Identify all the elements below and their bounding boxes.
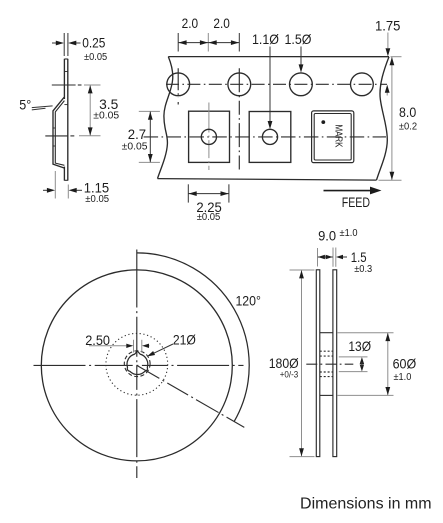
dimension 1.15 +/-0.05 pocket depth: [43, 171, 110, 205]
svg-text:±1.0: ±1.0: [394, 372, 412, 383]
svg-text:13Ø: 13Ø: [348, 339, 371, 354]
pocket row centerline: [144, 136, 386, 138]
tape lead-out arc 120 degrees: [137, 253, 249, 422]
svg-text:2.0: 2.0: [182, 16, 199, 31]
reel front outline circle: [41, 270, 232, 461]
svg-text:2.50: 2.50: [85, 333, 110, 348]
dimension 1.5 +/-0.3 flange thickness: [336, 250, 373, 275]
dimension 1.75 edge to sprocket center: [375, 18, 401, 95]
svg-text:±0.05: ±0.05: [85, 194, 109, 205]
svg-text:±0.05: ±0.05: [93, 110, 119, 121]
dimension 9.0 +/-1.0 overall width: [318, 228, 359, 267]
svg-text:±0.05: ±0.05: [197, 212, 221, 223]
sprocket hole 3: [290, 73, 313, 96]
dimension 5 degree draft angle with leader: [19, 97, 52, 112]
dimension 21 dia with leader: [147, 333, 196, 357]
svg-text:1.75: 1.75: [375, 18, 401, 33]
sprocket hole 1: [167, 68, 190, 104]
pocket 2: [249, 112, 291, 163]
dimension 2.50 keyway width: [85, 333, 149, 352]
reel left flange: [316, 270, 320, 457]
pocket-center tick line on profile: [45, 135, 74, 137]
dimension 0.25 +/-0.05 tape thickness: [52, 33, 108, 63]
sprocket row centerline: [166, 83, 387, 85]
dimension 2.0 2.0 sprocket spacing: [178, 16, 239, 51]
svg-text:2.0: 2.0: [213, 16, 230, 31]
dimension 1.5 dia sprocket hole with leader: [285, 32, 312, 73]
svg-text:±0.05: ±0.05: [84, 52, 108, 63]
svg-text:1.1Ø: 1.1Ø: [252, 32, 279, 47]
sprocket hole 4: [351, 73, 374, 96]
svg-text:21Ø: 21Ø: [173, 333, 196, 348]
svg-text:1.5: 1.5: [351, 250, 367, 265]
dimension 13 dia bore: [339, 339, 371, 372]
hub bore dashed circle 13 dia: [124, 351, 150, 377]
dimension 180 dia +0/-3 reel diameter: [269, 270, 315, 457]
pocket 2 hole: [262, 129, 277, 144]
carrier tape cross-section profile: [53, 59, 68, 181]
hub bottom line 60 dia: [320, 394, 333, 396]
carrier tape outline with torn ends: [158, 57, 390, 181]
svg-text:±0.05: ±0.05: [122, 141, 148, 152]
dimension 1.1 dia pocket hole with leader: [252, 32, 279, 129]
svg-text:±0.2: ±0.2: [399, 122, 417, 133]
dimension 60 dia +/-1.0 hub: [338, 333, 417, 396]
reel right flange: [333, 270, 337, 457]
svg-text:2.7: 2.7: [128, 127, 146, 142]
hub top line 60 dia: [320, 332, 333, 334]
pocket 1: [189, 103, 230, 171]
svg-text:120°: 120°: [235, 294, 261, 309]
reel horizontal centerline: [34, 364, 244, 366]
svg-text:FEED: FEED: [342, 195, 370, 210]
pocket 1 hole: [201, 129, 216, 144]
svg-text:60Ø: 60Ø: [393, 357, 417, 372]
svg-text:Dimensions in mm: Dimensions in mm: [300, 496, 432, 513]
dimension 3.5 +/-0.05 pocket pitch height: [79, 85, 120, 136]
svg-text:MARK: MARK: [332, 125, 343, 148]
svg-text:0.25: 0.25: [82, 36, 105, 51]
svg-text:1.5Ø: 1.5Ø: [285, 32, 312, 47]
hidden keyway dotted lines: [320, 351, 333, 376]
svg-text:8.0: 8.0: [399, 105, 416, 120]
dimension 2.7 +/-0.05 pocket height: [122, 111, 160, 162]
svg-text:±1.0: ±1.0: [340, 228, 359, 239]
120 degree radial dash-dot line: [137, 365, 245, 427]
feed direction arrow: [324, 187, 382, 211]
dimension 8.0 +/-0.2 tape width: [379, 57, 418, 181]
hub boss dotted circle 21 dia: [106, 333, 168, 395]
dimension 2.25 +/-0.05 pocket width: [188, 184, 229, 223]
svg-text:9.0: 9.0: [318, 228, 336, 243]
sprocket hole 2: [228, 68, 251, 171]
svg-text:5°: 5°: [19, 97, 31, 112]
svg-text:±0.3: ±0.3: [354, 264, 373, 275]
sprocket-level tick line on profile: [52, 84, 82, 86]
keyed center hole: [127, 351, 148, 374]
svg-text:+0/-3: +0/-3: [280, 370, 299, 380]
side view horizontal centerline: [306, 363, 353, 365]
component in pocket 3: [312, 111, 354, 163]
reel vertical centerline: [136, 250, 138, 479]
